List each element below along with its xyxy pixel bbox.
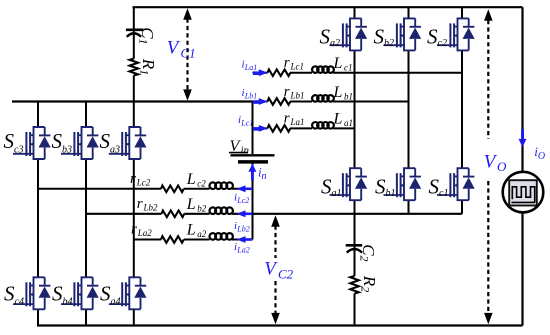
svg-text:n: n bbox=[262, 171, 267, 182]
wire branch La2 bbox=[134, 239, 253, 241]
current arrow iO bbox=[521, 129, 524, 139]
resistor rLb1 bbox=[268, 98, 291, 105]
svg-text:b1: b1 bbox=[344, 91, 353, 101]
wire source lead Sa1 bbox=[354, 200, 356, 214]
wire drain lead Sc3 bbox=[37, 102, 39, 128]
svg-text:S: S bbox=[375, 174, 386, 198]
wire branch La1 bbox=[253, 127, 355, 129]
transistor Sa3 bbox=[109, 127, 147, 159]
wire branch Lb1 bbox=[253, 101, 409, 103]
svg-text:Lb1: Lb1 bbox=[244, 92, 257, 101]
transistor Sc4 bbox=[13, 277, 51, 309]
svg-text:S: S bbox=[4, 281, 15, 305]
wire left leg c midpoint column bbox=[37, 159, 39, 277]
svg-text:a2: a2 bbox=[197, 229, 207, 239]
inductor Lc1 bbox=[312, 66, 319, 73]
svg-text:L: L bbox=[333, 55, 343, 72]
svg-text:Lc2: Lc2 bbox=[236, 196, 249, 205]
svg-text:R1: R1 bbox=[138, 58, 159, 75]
Vin label underline bbox=[229, 152, 248, 154]
svg-text:a3: a3 bbox=[110, 144, 120, 155]
wire right leg b midpoint column bbox=[408, 51, 410, 168]
wire C2 branch upper bbox=[354, 214, 356, 276]
current arrow iLa1 bbox=[253, 71, 260, 75]
svg-text:r: r bbox=[284, 55, 290, 71]
svg-text:b4: b4 bbox=[63, 296, 73, 307]
inductor Lc2 bbox=[210, 182, 217, 189]
svg-text:b2: b2 bbox=[384, 38, 394, 49]
wire middle rail node N2 bbox=[86, 213, 462, 215]
wire right leg c midpoint column bbox=[461, 51, 463, 168]
VC2 measurement arrow bbox=[274, 226, 276, 259]
VO measurement arrow bbox=[487, 20, 489, 139]
svg-text:r: r bbox=[284, 84, 290, 100]
svg-text:O: O bbox=[497, 159, 507, 174]
svg-text:L: L bbox=[186, 196, 196, 213]
svg-text:b1: b1 bbox=[386, 188, 396, 199]
svg-text:a4: a4 bbox=[111, 296, 121, 307]
wire drain lead Sb3 bbox=[85, 102, 87, 128]
svg-text:in: in bbox=[241, 144, 250, 156]
transistor Sb3 bbox=[61, 127, 99, 159]
svg-text:a1: a1 bbox=[344, 118, 353, 128]
svg-text:a2: a2 bbox=[330, 38, 340, 49]
transistor Sc2 bbox=[437, 18, 475, 50]
capacitor C2 bbox=[346, 244, 363, 247]
wire source lead Sa4 bbox=[133, 309, 135, 325]
svg-text:C2: C2 bbox=[278, 266, 294, 281]
current arrow iLc2 bbox=[245, 188, 252, 191]
transistor Sa1 bbox=[330, 168, 368, 200]
wire branch Lc2 bbox=[38, 188, 253, 190]
svg-text:b3: b3 bbox=[62, 144, 72, 155]
transistor Sa4 bbox=[109, 277, 147, 309]
svg-text:S: S bbox=[100, 129, 111, 153]
svg-text:V: V bbox=[264, 258, 278, 279]
svg-text:C2: C2 bbox=[358, 244, 379, 261]
svg-text:c4: c4 bbox=[15, 296, 24, 307]
wire drain lead Sc2 bbox=[461, 7, 463, 18]
svg-text:V: V bbox=[484, 151, 498, 172]
current arrow iLb1 bbox=[253, 100, 260, 104]
svg-text:S: S bbox=[52, 129, 63, 153]
svg-text:L: L bbox=[333, 111, 343, 128]
wire source lead Sb1 bbox=[408, 200, 410, 214]
wire left rail node P1 bbox=[12, 100, 253, 102]
svg-text:S: S bbox=[427, 24, 438, 48]
svg-text:O: O bbox=[538, 151, 545, 162]
svg-text:La1: La1 bbox=[290, 117, 305, 127]
svg-text:S: S bbox=[320, 24, 331, 48]
wire top rail bbox=[133, 6, 523, 8]
svg-text:S: S bbox=[4, 129, 15, 153]
transistor Sc3 bbox=[13, 127, 51, 159]
resistor rLb2 bbox=[162, 211, 185, 218]
wire drain lead Sa2 bbox=[354, 7, 356, 18]
svg-text:S: S bbox=[321, 174, 332, 198]
wire branch Lc1 bbox=[253, 72, 463, 74]
svg-text:Lc1: Lc1 bbox=[290, 62, 305, 72]
transistor Sb4 bbox=[61, 277, 99, 309]
wire drain lead Sa3 bbox=[133, 102, 135, 128]
transistor Sa2 bbox=[330, 18, 368, 50]
svg-text:L: L bbox=[186, 171, 196, 188]
wire right bus lower bbox=[521, 213, 523, 326]
wire source lead Sc1 bbox=[461, 200, 463, 214]
svg-text:Lb1: Lb1 bbox=[290, 90, 305, 100]
inductor Lb2 bbox=[210, 207, 217, 214]
current arrow iLc1 bbox=[253, 127, 260, 131]
svg-text:c2: c2 bbox=[438, 38, 447, 49]
capacitor C1 bbox=[126, 28, 143, 31]
svg-text:c3: c3 bbox=[14, 144, 23, 155]
wire center bus lower bbox=[252, 163, 254, 239]
svg-text:Lb2: Lb2 bbox=[236, 225, 249, 234]
svg-text:C1: C1 bbox=[136, 27, 157, 44]
wire left leg a midpoint column bbox=[133, 159, 135, 277]
inductor Lb1 bbox=[312, 95, 319, 102]
svg-text:S: S bbox=[52, 281, 63, 305]
resistor rLc1 bbox=[268, 69, 291, 76]
resistor R1 bbox=[130, 59, 138, 76]
wire C1 branch upper bbox=[133, 7, 135, 58]
VC1 measurement arrow bbox=[186, 19, 188, 92]
transistor Sb2 bbox=[384, 18, 422, 50]
wire C2 branch lower bbox=[354, 294, 356, 326]
battery Vin short plate bbox=[238, 160, 268, 164]
svg-text:R2: R2 bbox=[359, 275, 380, 292]
svg-text:c2: c2 bbox=[197, 178, 206, 188]
svg-text:c1: c1 bbox=[344, 63, 353, 73]
inductor La2 bbox=[210, 233, 217, 240]
svg-text:L: L bbox=[333, 84, 343, 101]
svg-text:S: S bbox=[100, 281, 111, 305]
wire left leg b midpoint column bbox=[85, 159, 87, 277]
svg-text:La2: La2 bbox=[137, 228, 153, 238]
wire right bus upper bbox=[521, 7, 523, 171]
transistor Sc1 bbox=[437, 168, 475, 200]
wire source lead Sb4 bbox=[85, 309, 87, 325]
svg-text:r: r bbox=[137, 196, 143, 212]
current arrow iLb2 bbox=[245, 213, 252, 216]
svg-text:S: S bbox=[429, 174, 440, 198]
battery Vin long plate bbox=[231, 154, 275, 156]
wire C1 branch lower bbox=[133, 75, 135, 101]
svg-text:c1: c1 bbox=[439, 188, 448, 199]
resistor rLa2 bbox=[161, 236, 184, 243]
svg-text:b2: b2 bbox=[197, 203, 207, 213]
svg-text:r: r bbox=[131, 222, 137, 238]
current arrow in bbox=[251, 171, 254, 181]
svg-text:r: r bbox=[130, 171, 136, 187]
svg-text:S: S bbox=[374, 24, 385, 48]
load machine symbol bbox=[503, 172, 544, 213]
svg-text:r: r bbox=[284, 111, 290, 127]
svg-text:Lc2: Lc2 bbox=[136, 177, 151, 187]
transistor Sb1 bbox=[384, 168, 422, 200]
svg-text:a1: a1 bbox=[332, 188, 342, 199]
svg-text:Lc1: Lc1 bbox=[240, 119, 253, 128]
wire right leg a midpoint column bbox=[354, 51, 356, 168]
svg-text:La2: La2 bbox=[236, 246, 249, 255]
svg-text:La1: La1 bbox=[244, 63, 257, 72]
wire center bus upper bbox=[252, 102, 254, 155]
wire source lead Sc4 bbox=[37, 309, 39, 325]
resistor rLa1 bbox=[268, 125, 291, 132]
resistor R2 bbox=[350, 276, 358, 294]
inductor La1 bbox=[312, 122, 319, 129]
svg-text:L: L bbox=[186, 222, 196, 239]
wire bottom rail bbox=[37, 324, 523, 326]
current arrow iLa2 bbox=[245, 238, 252, 241]
svg-text:V: V bbox=[167, 37, 181, 58]
svg-text:Lb2: Lb2 bbox=[143, 202, 159, 212]
wire drain lead Sb2 bbox=[408, 7, 410, 18]
resistor rLc2 bbox=[161, 186, 184, 193]
svg-text:C1: C1 bbox=[181, 45, 196, 60]
